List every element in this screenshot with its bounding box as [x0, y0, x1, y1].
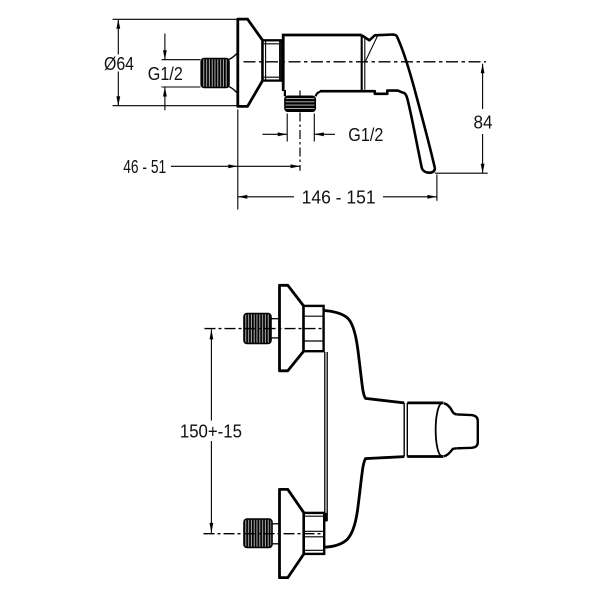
extension line wall face: [237, 110, 239, 210]
outlet centerline vertical: [299, 91, 301, 97]
wall supply nipple thread: [201, 59, 229, 88]
handle skirt edge: [365, 35, 377, 61]
nipple-to-escutcheon curve top: [229, 54, 237, 60]
dimension 84: [435, 64, 493, 174]
top neck: [271, 318, 280, 320]
nipple-to-escutcheon curve bottom: [229, 87, 237, 93]
handle cone shoulder bottom: [444, 448, 457, 456]
handle and lever outline: [320, 35, 435, 173]
dimension Ø64: [104, 19, 237, 105]
dimension 46-51: [123, 157, 300, 177]
bottom collar nut: [304, 513, 324, 554]
body outline upper: [324, 311, 404, 403]
mounting nut: [263, 40, 283, 80]
top supply thread: [244, 314, 271, 344]
escutcheon (side view): [238, 19, 263, 106]
handle grip tip: [457, 414, 478, 448]
svg-text:146 - 151: 146 - 151: [302, 187, 376, 207]
dimension G1/2 (outlet): [263, 114, 384, 145]
dimension 146-151: [238, 187, 437, 207]
dimension G1/2 (nipple): [148, 34, 201, 111]
handle hub bottom edge: [407, 455, 443, 458]
valve body: [283, 35, 362, 91]
body left edge merge at bottom collar: [323, 513, 327, 522]
svg-text:G1/2: G1/2: [348, 125, 383, 145]
outlet thread block: [285, 96, 315, 111]
svg-text:G1/2: G1/2: [148, 64, 183, 84]
outlet boss left edge: [284, 90, 286, 96]
handle cone base ellipse: [436, 403, 442, 456]
dimension 150+-15: [180, 329, 242, 533]
svg-text:150+-15: 150+-15: [180, 421, 242, 441]
svg-text:84: 84: [474, 113, 493, 133]
handle cone shoulder top: [444, 403, 457, 414]
body left edge (double line): [324, 352, 326, 521]
centerline top connection: [205, 328, 323, 330]
centerline horizontal: [244, 61, 487, 63]
top collar nut: [304, 306, 324, 351]
centerline bottom connection: [204, 533, 323, 535]
outlet boss right curve: [316, 91, 323, 96]
body outline lower: [324, 457, 404, 548]
svg-text:Ø64: Ø64: [104, 54, 134, 74]
handle hub top edge: [407, 401, 443, 404]
extension line handle tip: [436, 175, 438, 201]
bottom neck: [272, 523, 280, 525]
bottom escutcheon: [280, 489, 304, 577]
bottom supply thread: [244, 519, 272, 548]
top escutcheon: [280, 285, 304, 371]
svg-text:46 - 51: 46 - 51: [123, 157, 166, 177]
body end cap lines: [361, 35, 363, 91]
handle hub joint lines: [403, 403, 405, 457]
